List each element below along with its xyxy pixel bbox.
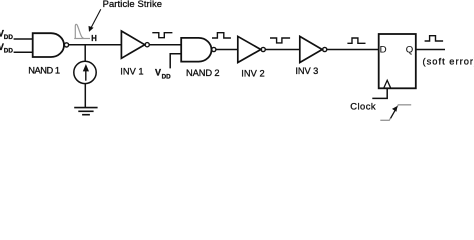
INV2 output bubble [261, 47, 265, 51]
flip-flop U1 box [379, 34, 416, 88]
svg-text:(soft error): (soft error) [423, 57, 474, 67]
inverter INV1 [121, 31, 144, 58]
wire current source to ground [84, 83, 86, 107]
Particle Strike arrow [91, 9, 101, 28]
current source arrow [85, 69, 87, 81]
NAND1 output bubble [64, 43, 68, 47]
wire NAND1 output to INV1 [69, 44, 122, 46]
svg-text:V: V [155, 68, 161, 78]
waveform negative pulse after INV1 [152, 33, 172, 38]
wire VDD to NAND2 lower input [170, 54, 181, 69]
wire INV1 to NAND2 [149, 44, 181, 46]
wire VDD input 2 to NAND1 [14, 51, 33, 53]
wire INV2 to INV3 [265, 49, 300, 51]
svg-text:Q: Q [406, 45, 413, 56]
wire NAND2 to INV2 [216, 49, 238, 51]
waveform positive pulse after NAND2 [212, 33, 231, 38]
svg-text:INV 2: INV 2 [241, 69, 264, 79]
svg-text:Particle Strike: Particle Strike [103, 0, 162, 9]
waveform positive pulse after INV3 [347, 38, 365, 43]
svg-text:NAND 1: NAND 1 [28, 65, 60, 75]
svg-text:INV 1: INV 1 [120, 67, 143, 77]
NAND gate NAND1 [33, 33, 64, 57]
svg-text:Clock: Clock [350, 101, 376, 112]
wire VDD input 1 to NAND1 [14, 38, 33, 40]
svg-text:DD: DD [4, 47, 14, 54]
wire Q output [416, 49, 445, 51]
flip-flop clock wedge [384, 80, 391, 88]
wire INV3 to flip-flop D [327, 49, 379, 51]
NAND gate NAND2 [181, 38, 211, 62]
svg-text:H: H [91, 34, 97, 43]
clock wire [372, 89, 387, 99]
INV3 output bubble [323, 47, 327, 51]
clock edge arrow [391, 110, 396, 118]
waveform positive pulse at Q (soft error) [425, 36, 444, 41]
clock edge waveform (gray) [380, 105, 411, 121]
inverter INV3 [300, 36, 322, 62]
ground [74, 107, 97, 109]
svg-text:INV 3: INV 3 [295, 66, 318, 76]
current source I1 circle [74, 61, 96, 83]
wire tap down to current source [84, 45, 86, 62]
svg-text:DD: DD [4, 34, 14, 41]
glitch current pulse (gray) [74, 38, 90, 40]
inverter INV2 [238, 36, 261, 62]
NAND2 output bubble [212, 47, 216, 51]
waveform negative pulse after INV2 [270, 38, 290, 43]
svg-text:DD: DD [162, 73, 172, 80]
svg-text:D: D [380, 45, 387, 56]
INV1 output bubble [145, 43, 149, 47]
svg-text:NAND 2: NAND 2 [186, 68, 220, 78]
